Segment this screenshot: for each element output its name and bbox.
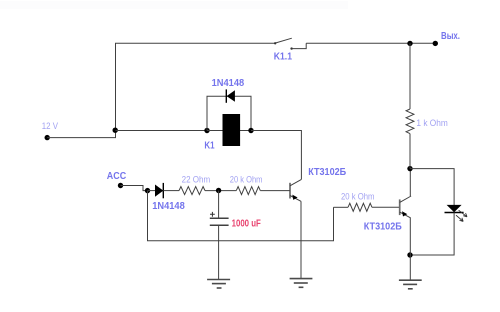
- svg-text:1 k Ohm: 1 k Ohm: [416, 118, 447, 129]
- transistor Q1 KT3102B: [290, 167, 346, 202]
- wire R2 to Q1 base: [260, 190, 290, 192]
- resistor R2 20 k Ohm: [230, 175, 263, 195]
- wire LED bottom to emitter junction: [410, 213, 454, 256]
- diode D2 1N4148 input: [148, 183, 186, 212]
- wire LED branch top: [410, 169, 454, 205]
- junction LED node: [407, 166, 412, 171]
- wire 12V to junction: [47, 131, 115, 138]
- terminal ACC: [107, 171, 126, 188]
- LED D3: [445, 205, 464, 213]
- junction relay left: [204, 128, 209, 133]
- LED light arrows: [456, 210, 467, 221]
- junction node out: [407, 41, 412, 46]
- ground Q1 emitter: [290, 279, 313, 288]
- ground C1: [207, 280, 230, 289]
- junction relay right: [248, 128, 253, 133]
- svg-text:20 k Ohm: 20 k Ohm: [341, 191, 374, 202]
- wire Q1 emitter down: [300, 201, 302, 278]
- svg-text:1000 uF: 1000 uF: [232, 218, 261, 229]
- wire Q2 emitter down: [409, 218, 411, 280]
- resistor R3 20 k Ohm: [334, 191, 400, 211]
- terminal Вых.: [433, 31, 461, 46]
- resistor R4 1 k Ohm vertical: [406, 43, 448, 168]
- resistor R1 22 Ohm: [179, 175, 210, 195]
- wire relay to Q1 collector: [251, 131, 301, 180]
- wire to relay: [116, 130, 208, 132]
- svg-text:Вых.: Вых.: [441, 31, 460, 42]
- wire top rail left vertical: [116, 43, 276, 130]
- capacitor C1 1000uF: [210, 191, 261, 280]
- svg-text:22 Ohm: 22 Ohm: [182, 175, 211, 186]
- relay K1: [204, 114, 240, 151]
- diode D1 1N4148 snubber loop: [207, 78, 251, 131]
- junction 12V rail: [113, 128, 118, 133]
- svg-text:12 V: 12 V: [42, 121, 59, 132]
- svg-text:ACC: ACC: [107, 171, 126, 182]
- junction Q2 emitter: [407, 252, 412, 257]
- junction R1 R2 C1: [216, 188, 221, 193]
- svg-text:КТ3102Б: КТ3102Б: [308, 167, 346, 178]
- wire through relay: [207, 130, 251, 132]
- svg-text:K1: K1: [204, 140, 215, 151]
- wire R1 to R2: [205, 190, 236, 192]
- wire ACC to junction: [121, 186, 148, 191]
- svg-text:1N4148: 1N4148: [212, 78, 245, 89]
- ground Q2: [399, 280, 422, 289]
- wire ACC node down and across to R3: [148, 191, 334, 241]
- switch K1.1: [274, 38, 306, 62]
- junction ACC node: [145, 188, 150, 193]
- svg-text:20 k Ohm: 20 k Ohm: [230, 175, 263, 186]
- svg-text:K1.1: K1.1: [274, 52, 293, 63]
- svg-text:1N4148: 1N4148: [152, 201, 185, 212]
- transistor Q2 KT3102B: [364, 196, 411, 232]
- wire Q2 collector up to junction: [409, 169, 411, 196]
- svg-text:КТ3102Б: КТ3102Б: [364, 221, 402, 232]
- wire switch to output: [306, 42, 435, 44]
- terminal 12V: [42, 121, 59, 140]
